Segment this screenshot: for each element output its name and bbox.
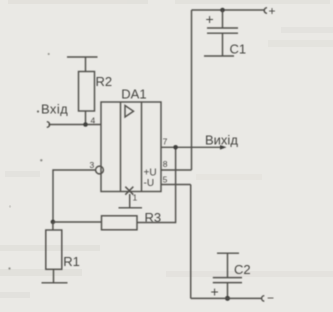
- junction dot C1 / top rail: [220, 8, 225, 13]
- svg-text:−: −: [267, 291, 274, 305]
- wire: pin 1 to ground: [129, 194, 131, 208]
- common bus bar above R2: [67, 56, 98, 58]
- svg-text:R2: R2: [96, 74, 113, 89]
- ground bar below R1: [42, 282, 68, 284]
- svg-text:C1: C1: [230, 42, 247, 57]
- svg-text:Вихід: Вихід: [205, 133, 238, 148]
- svg-text:+U: +U: [144, 168, 157, 179]
- svg-text:C2: C2: [234, 262, 251, 277]
- terminal + (top right): [264, 8, 267, 14]
- resistor R3: [102, 216, 138, 230]
- wire: +U rail from top rail down to pin 8: [191, 10, 193, 170]
- junction dot input / R2: [83, 122, 88, 127]
- input terminal: [47, 122, 50, 128]
- op-amp DA1 box: [101, 102, 161, 192]
- svg-text:DA1: DA1: [121, 86, 146, 101]
- resistor R2: [79, 57, 95, 125]
- pin 8 wire: [161, 169, 192, 171]
- pin 3 inversion bubble: [96, 166, 104, 174]
- pin 7 output wire with arrow: [161, 145, 227, 150]
- wire: pin 3 to node A: [53, 170, 96, 222]
- junction dot C2 / bottom rail: [225, 296, 230, 301]
- svg-text:+: +: [269, 4, 276, 18]
- svg-text:5: 5: [163, 175, 168, 185]
- common bus bar above C2: [217, 252, 239, 254]
- ground bar below pin 1: [119, 207, 143, 209]
- svg-text:R1: R1: [63, 254, 80, 269]
- wire: R3 to output node: [137, 147, 176, 222]
- resistor R1: [46, 222, 62, 283]
- svg-text:4: 4: [91, 116, 96, 126]
- wire: top positive supply rail: [192, 9, 265, 11]
- terminal - (bottom right): [262, 296, 265, 301]
- svg-text:7: 7: [163, 137, 168, 147]
- svg-text:-U: -U: [144, 178, 155, 189]
- node A junction dot: [51, 220, 56, 225]
- capacitor C1: [207, 10, 238, 56]
- svg-text:+: +: [211, 284, 219, 300]
- svg-text:+: +: [206, 11, 214, 27]
- pin 5 wire: [161, 184, 191, 186]
- junction dot output: [173, 145, 178, 150]
- svg-text:Вхід: Вхід: [41, 102, 68, 117]
- svg-text:R3: R3: [145, 210, 162, 225]
- wire: node A to R3: [53, 221, 102, 223]
- pin 1 cross symbol: [125, 187, 133, 195]
- wire: bottom negative rail: [191, 297, 262, 299]
- amplifier triangle symbol: [125, 106, 134, 118]
- svg-text:3: 3: [90, 160, 95, 170]
- common bus bar below C1: [204, 55, 234, 57]
- wire: -U rail from pin 5 down to bottom rail: [190, 185, 192, 299]
- wire: input to pin 4 of DA1: [49, 124, 102, 126]
- svg-text:8: 8: [163, 159, 168, 169]
- capacitor C2: [213, 253, 242, 298]
- svg-text:1: 1: [133, 193, 138, 203]
